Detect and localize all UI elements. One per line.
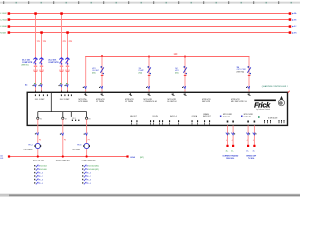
svg-text:12 TERM: 12 TERM bbox=[96, 101, 104, 103]
overload heater 26-1 bbox=[34, 70, 43, 72]
wire feeder 2T1 bbox=[61, 14, 63, 93]
contactor 26-2 pole B bbox=[65, 57, 69, 64]
wire bus L1 bbox=[9, 13, 290, 15]
node tap 1T1 bbox=[34, 12, 37, 15]
svg-text:OIL TEMP: OIL TEMP bbox=[72, 149, 81, 151]
label T130 bbox=[125, 99, 134, 103]
net label L2 left bbox=[0, 19, 7, 21]
svg-text:CONDEN 56 HI: CONDEN 56 HI bbox=[144, 101, 158, 103]
label terminal group2 bbox=[60, 99, 70, 101]
overload OL2 marks bbox=[60, 66, 69, 67]
terminal clamps top group2 bbox=[61, 94, 72, 96]
svg-text:L2 604: L2 604 bbox=[0, 19, 7, 21]
fuse switch F2 bbox=[147, 66, 151, 76]
net label N right bbox=[292, 31, 297, 34]
node junction A bbox=[37, 155, 39, 157]
net label L3 left bbox=[0, 26, 7, 28]
net label L3 right bbox=[292, 25, 297, 28]
svg-text:41+: 41+ bbox=[226, 150, 229, 152]
svg-text:4: 4 bbox=[253, 140, 254, 142]
svg-text:▶8B: ▶8B bbox=[292, 18, 297, 21]
wire CT2 bbox=[232, 125, 234, 146]
svg-text:N 608: N 608 bbox=[0, 32, 6, 34]
label PE-8 bbox=[72, 144, 81, 151]
fuse switch F4 bbox=[247, 66, 251, 76]
svg-text:12 TERM: 12 TERM bbox=[125, 101, 133, 103]
spare terminal group S1 bbox=[130, 115, 137, 125]
wire exit B inside bbox=[62, 119, 64, 125]
svg-text:43+: 43+ bbox=[246, 150, 249, 152]
svg-text:HTR FEED: HTR FEED bbox=[79, 101, 89, 103]
label quantum controller bbox=[262, 85, 289, 88]
svg-text:QUANTUM CONTROLLER #: QUANTUM CONTROLLER # bbox=[262, 85, 289, 88]
terminal clamp stubs above edge bbox=[35, 91, 68, 92]
connector plug CT2 bbox=[231, 132, 235, 135]
svg-text:PE-4: PE-4 bbox=[28, 144, 32, 146]
net label N left bbox=[0, 32, 6, 34]
connector plug CT4 bbox=[253, 132, 257, 135]
controller box U1 bbox=[27, 92, 287, 125]
svg-text:L-9: L-9 bbox=[40, 183, 43, 185]
label F2 bbox=[139, 68, 145, 74]
svg-text:1T1: 1T1 bbox=[37, 41, 40, 43]
svg-text:Frick: Frick bbox=[254, 100, 271, 109]
terminal T3 bbox=[86, 117, 91, 120]
label sensor group A bbox=[33, 160, 44, 162]
svg-text:A1: A1 bbox=[25, 83, 27, 86]
CT terminal group 1 bbox=[220, 114, 234, 123]
connector plug 120A bbox=[83, 86, 87, 89]
label T149 bbox=[144, 99, 158, 103]
node bus right ends bbox=[289, 12, 292, 34]
label F4 bbox=[237, 67, 247, 74]
wire sensor C bbox=[86, 125, 88, 156]
svg-text:2T1: 2T1 bbox=[63, 41, 66, 43]
transducer PE-4 bbox=[34, 143, 41, 148]
connector plug sensor B bbox=[60, 133, 64, 136]
label 26-1 bbox=[21, 60, 32, 67]
wire bus N bbox=[9, 32, 290, 34]
label sensor group C bbox=[82, 160, 96, 162]
svg-text:4: 4 bbox=[247, 140, 248, 142]
sheet top border ruler bbox=[0, 1, 300, 4]
terminal T1 bbox=[37, 117, 42, 120]
label PE-4 bbox=[24, 144, 34, 151]
terminal clamp T102 bbox=[101, 93, 104, 96]
overload heater 26-2 bbox=[60, 70, 69, 72]
net label L1 left bbox=[0, 13, 7, 15]
svg-text:P7: P7 bbox=[88, 139, 90, 141]
svg-text:B-5 604: B-5 604 bbox=[40, 166, 46, 168]
contactor 26-2 pole A bbox=[59, 57, 63, 64]
transducer PE-8 bbox=[83, 143, 90, 148]
svg-text:B-5 606 (N2): B-5 606 (N2) bbox=[88, 169, 99, 171]
wire 120V feeder run bbox=[85, 57, 249, 93]
connector plug 1T1 bbox=[33, 83, 37, 87]
label T249 bbox=[231, 99, 247, 103]
wire drop 2CR bbox=[148, 57, 150, 93]
wire number sensor C bbox=[88, 139, 90, 141]
fuse switch F3 bbox=[183, 66, 187, 76]
wire number sensor A bbox=[39, 139, 41, 141]
label CT3 bbox=[246, 155, 257, 160]
node CT3 ends bbox=[247, 145, 256, 147]
svg-text:B-5 606: B-5 606 bbox=[40, 169, 46, 171]
svg-text:(N5): (N5) bbox=[175, 72, 179, 74]
wire CT4 bbox=[253, 125, 255, 146]
connector plug 120D bbox=[182, 86, 186, 89]
node bus left ends bbox=[8, 12, 11, 34]
connector plug sensor A bbox=[35, 132, 39, 135]
svg-text:SL/OIL TEMP SIG: SL/OIL TEMP SIG bbox=[56, 160, 70, 162]
svg-text:AUX 1-4: AUX 1-4 bbox=[170, 115, 176, 118]
svg-text:▶8N: ▶8N bbox=[292, 31, 297, 34]
label T102 bbox=[96, 99, 105, 103]
svg-text:COM A: COM A bbox=[192, 115, 198, 118]
node 2CR tap bbox=[148, 56, 150, 58]
label CT1 bbox=[222, 154, 239, 160]
svg-text:COMP TEMP SIG: COMP TEMP SIG bbox=[82, 160, 96, 162]
wire drop 3CR bbox=[184, 57, 186, 93]
svg-text:▶8A: ▶8A bbox=[292, 12, 297, 15]
connector plug 120C bbox=[146, 86, 150, 89]
connector plug CT3 bbox=[246, 132, 250, 135]
wire sensor A bbox=[37, 125, 39, 156]
label sensor group B bbox=[56, 160, 70, 162]
wire number CT3 bbox=[247, 140, 254, 142]
svg-text:L3 606: L3 606 bbox=[0, 26, 7, 28]
wire exit C inside bbox=[86, 119, 88, 125]
svg-text:L1 602: L1 602 bbox=[0, 13, 7, 15]
svg-text:CT3 CT4: CT3 CT4 bbox=[244, 116, 251, 118]
svg-text:EL SEP HI: EL SEP HI bbox=[168, 101, 177, 103]
ID module terminals bbox=[258, 116, 285, 123]
svg-text:(SEE N6): (SEE N6) bbox=[237, 71, 245, 73]
connector plug 120E bbox=[246, 86, 250, 89]
spare terminal group S3 bbox=[169, 115, 179, 125]
node corner tick bbox=[288, 91, 290, 93]
label analog left bbox=[0, 154, 3, 159]
label F3 bbox=[175, 68, 179, 74]
svg-text:1T2: 1T2 bbox=[43, 41, 46, 43]
wire CT1 bbox=[227, 125, 229, 146]
wire number labels group2 bbox=[63, 41, 72, 43]
wire number CT1 bbox=[226, 140, 233, 142]
terminal block 123 bbox=[72, 118, 80, 121]
svg-text:26-2 COMP: 26-2 COMP bbox=[60, 99, 70, 101]
node analog right end bbox=[126, 155, 128, 157]
terminal clamp T173 bbox=[172, 93, 175, 96]
label F1 bbox=[92, 68, 100, 74]
node 1CR tap bbox=[101, 55, 103, 57]
svg-text:COMP MTR: COMP MTR bbox=[22, 62, 33, 64]
svg-text:P3: P3 bbox=[39, 139, 41, 141]
sheet bottom border bbox=[0, 194, 300, 197]
svg-text:CT1 CT2: CT1 CT2 bbox=[223, 116, 230, 118]
wire bus L2 bbox=[9, 19, 290, 21]
svg-text:RUN SIGL: RUN SIGL bbox=[226, 158, 234, 160]
wire number labels group1 bbox=[37, 41, 46, 43]
wire CT3 bbox=[247, 125, 249, 146]
svg-text:26-1 COMP: 26-1 COMP bbox=[35, 99, 45, 101]
svg-text:TL SIGL: TL SIGL bbox=[248, 158, 254, 160]
connector plug 2T2 bbox=[65, 83, 69, 87]
svg-text:4: 4 bbox=[232, 140, 233, 142]
label T85 bbox=[79, 99, 89, 103]
contactor 26-1 pole A bbox=[33, 57, 37, 64]
svg-text:SEP HTR: SEP HTR bbox=[202, 101, 211, 103]
svg-text:4: 4 bbox=[226, 140, 227, 142]
svg-text:L-6: L-6 bbox=[88, 173, 91, 175]
svg-text:1 2 3: 1 2 3 bbox=[72, 118, 76, 120]
label 26-2 bbox=[48, 60, 59, 64]
label CT3 pins bbox=[246, 150, 255, 152]
overload OL1 marks bbox=[34, 66, 43, 67]
svg-text:L-6: L-6 bbox=[40, 173, 43, 175]
CT terminal group 2 bbox=[241, 114, 255, 123]
svg-text:(N7): (N7) bbox=[140, 157, 144, 159]
svg-text:T2: T2 bbox=[65, 118, 67, 120]
terminal clamp T185 bbox=[184, 93, 187, 96]
svg-text:L-7: L-7 bbox=[40, 176, 43, 178]
svg-text:(SEE N1): (SEE N1) bbox=[21, 65, 29, 67]
label analog right bbox=[130, 156, 144, 159]
svg-text:L-8: L-8 bbox=[88, 180, 91, 182]
node tap 2T2 bbox=[66, 31, 69, 34]
node junction B bbox=[62, 155, 64, 157]
spare terminal group S2 bbox=[150, 116, 163, 125]
label T185 bbox=[202, 99, 211, 103]
svg-text:▶8C: ▶8C bbox=[292, 25, 297, 28]
label T173 bbox=[168, 99, 177, 103]
label CT1 pins bbox=[226, 150, 234, 152]
svg-text:AUX OUT: AUX OUT bbox=[203, 115, 211, 118]
wire feeder 1T1 bbox=[35, 14, 37, 93]
svg-text:2T2: 2T2 bbox=[69, 41, 72, 43]
connector plug CT1 bbox=[226, 132, 230, 135]
connector plug 120B bbox=[99, 86, 103, 89]
connector plug sensor C bbox=[84, 133, 88, 136]
wire feeder 1T2 bbox=[41, 33, 43, 93]
svg-text:ID MODULE: ID MODULE bbox=[268, 117, 278, 119]
label 120 bbox=[174, 54, 179, 56]
connector plug 1T2 bbox=[39, 83, 43, 87]
terminal T2 bbox=[62, 117, 67, 120]
spare terminal group S5 bbox=[203, 113, 211, 125]
node tap 1T2 bbox=[40, 31, 43, 34]
terminal strip TS2 bbox=[82, 165, 99, 185]
Frick logo bbox=[254, 100, 276, 112]
wire drop 1CR bbox=[101, 57, 103, 93]
svg-text:L-7: L-7 bbox=[88, 176, 91, 178]
label terminal group1 bbox=[35, 99, 45, 101]
svg-text:T3: T3 bbox=[88, 118, 90, 120]
fuse switch F1 bbox=[100, 66, 104, 76]
node tap 2T1 bbox=[60, 12, 63, 15]
connector plug 2T1 bbox=[59, 83, 63, 87]
net label L1 right bbox=[292, 12, 297, 15]
svg-text:P5: P5 bbox=[64, 139, 66, 141]
svg-text:PE-8: PE-8 bbox=[77, 144, 81, 146]
svg-text:L-8: L-8 bbox=[40, 180, 43, 182]
svg-text:601: 601 bbox=[0, 158, 3, 160]
svg-text:COMP MTR: COMP MTR bbox=[48, 62, 59, 64]
terminal clamp T85 bbox=[84, 93, 87, 96]
terminal strip TS1 bbox=[34, 165, 46, 185]
node 3CR tap bbox=[184, 56, 186, 58]
net label L2 right bbox=[292, 18, 297, 21]
node CT1 ends bbox=[226, 145, 234, 147]
spare terminal group S4 bbox=[192, 115, 199, 125]
alarm horn bbox=[278, 96, 284, 106]
label connector row bbox=[25, 83, 27, 86]
wire analog bus bbox=[9, 156, 128, 158]
wire exit A inside bbox=[37, 119, 39, 125]
wire number sensor B bbox=[64, 139, 66, 141]
svg-text:SLCT OIL LVL: SLCT OIL LVL bbox=[33, 160, 44, 162]
svg-text:L-9: L-9 bbox=[88, 183, 91, 185]
svg-text:601A: 601A bbox=[130, 156, 135, 159]
svg-text:DIG IN: DIG IN bbox=[153, 116, 159, 118]
terminal clamp T249 bbox=[248, 93, 251, 96]
internal divider bbox=[50, 92, 52, 111]
node junction C bbox=[86, 155, 88, 157]
node analog left end bbox=[8, 155, 10, 157]
svg-text:T1: T1 bbox=[40, 118, 42, 120]
terminal clamp T149 bbox=[148, 93, 151, 96]
svg-text:AN OUT: AN OUT bbox=[130, 115, 136, 118]
svg-text:(N3): (N3) bbox=[92, 72, 96, 74]
wire sensor B bbox=[62, 125, 64, 156]
wire bus L3 bbox=[9, 26, 290, 28]
wire internal tree bbox=[38, 112, 87, 117]
svg-text:MIC SEP HTR LVL: MIC SEP HTR LVL bbox=[231, 101, 247, 103]
svg-text:OIL PRESS: OIL PRESS bbox=[24, 149, 34, 151]
terminal clamp T130 bbox=[129, 93, 132, 96]
contactor 26-1 pole B bbox=[39, 57, 43, 64]
terminal clamps top group1 bbox=[35, 94, 48, 96]
wire feeder 2T2 bbox=[67, 33, 69, 93]
svg-text:B-5 604 (N2): B-5 604 (N2) bbox=[88, 166, 99, 168]
svg-text:(N4): (N4) bbox=[139, 72, 143, 74]
